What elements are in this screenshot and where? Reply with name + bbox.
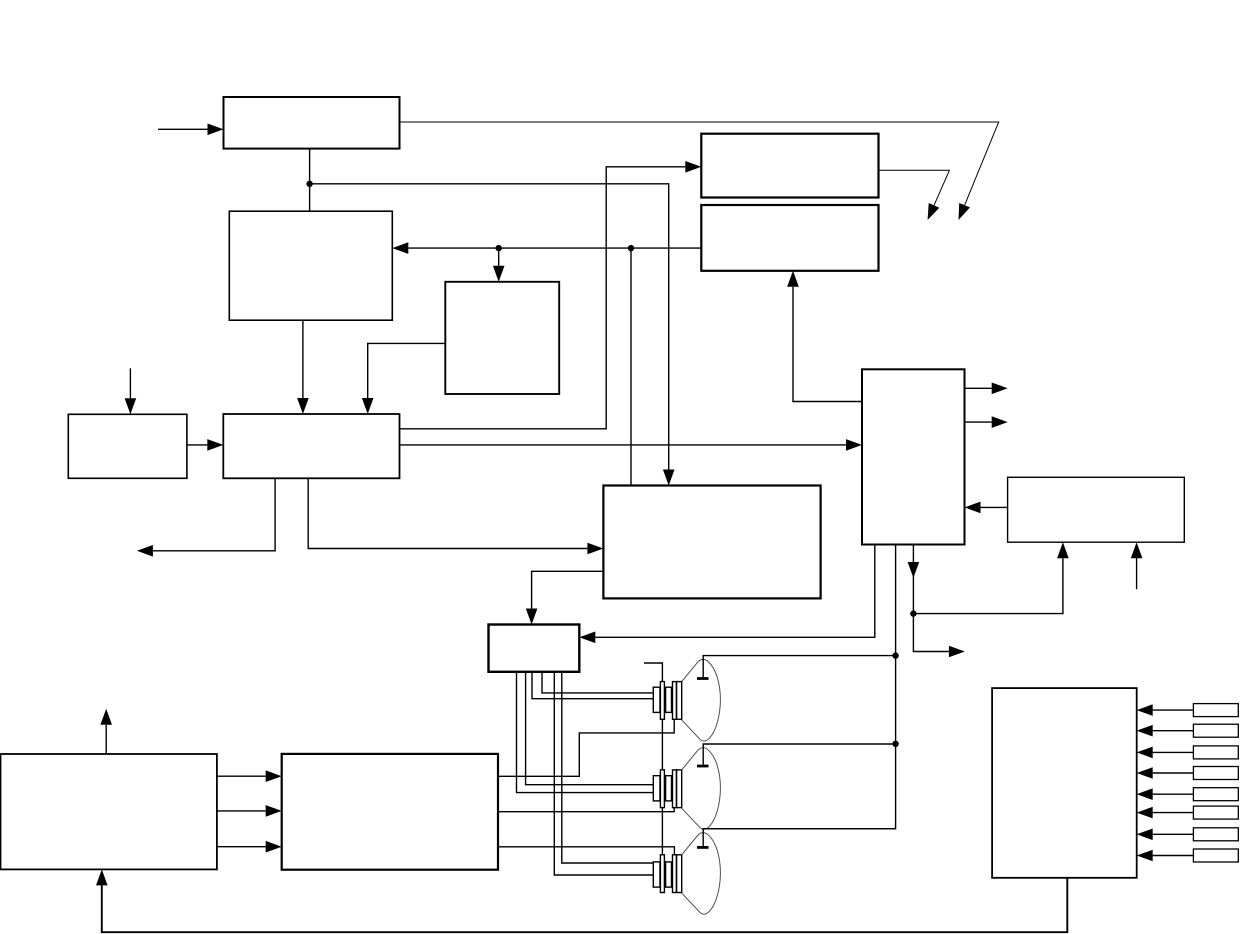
- block K (control unit): [992, 688, 1137, 878]
- CRT tube 3: funnel/bulb outline: [682, 833, 721, 915]
- wire: junction down into block C: [493, 248, 505, 282]
- wire: block G bottom output with mid arrow: [913, 545, 965, 658]
- block C (sync separator): [445, 282, 559, 394]
- wire: block M output 1 to CRT1 cathode: [498, 719, 674, 776]
- small input box S1: [1193, 704, 1238, 717]
- wire: external input into block A: [158, 124, 224, 136]
- wire: input S4 into block K: [1137, 767, 1194, 779]
- CRT tube 1: anode cap bar: [697, 677, 709, 680]
- wire: junction up into block I bottom: [913, 542, 1068, 613]
- CRT tube 3: gun electrode stack: [653, 855, 681, 893]
- junction: G output tap to block I: [910, 610, 916, 616]
- small input box S5: [1193, 788, 1238, 801]
- CRT tube 2: anode cap bar: [697, 765, 709, 768]
- wire: input S8 into block K: [1137, 850, 1194, 862]
- CRT tube 3: anode lead wire: [703, 829, 895, 846]
- block J (focus pack): [489, 625, 580, 672]
- CRT tube 1: anode lead wire: [703, 656, 895, 678]
- CRT tube 2: gun electrode stack: [653, 770, 681, 808]
- junction: HV line to CRT1 anode: [892, 652, 898, 658]
- junction: HV line to CRT2 anode: [892, 741, 898, 747]
- small input box S8: [1193, 849, 1238, 862]
- wire: input S1 into block K: [1137, 704, 1194, 716]
- wire: J output to CRT2 grid lower: [517, 672, 654, 793]
- wire: block G anode HV line to CRT anodes: [703, 545, 895, 829]
- small input box S3: [1193, 746, 1238, 759]
- wire: block M output 3 to CRT3 cathode: [498, 847, 674, 855]
- wire: external input into block D top: [125, 368, 137, 414]
- wire: input S7 into block K: [1137, 829, 1194, 841]
- small input box S6: [1193, 806, 1238, 819]
- arrowhead: mid-line down arrow on G output: [908, 562, 920, 578]
- wire: block M output 2 to CRT2 cathode: [498, 808, 674, 812]
- wire: block C left into block E top: [362, 343, 445, 414]
- wire: J output to CRT3 grid upper: [562, 672, 654, 863]
- CRT tube 2: funnel/bulb outline: [682, 748, 721, 830]
- junction: feedback line tap to DEF: [628, 245, 634, 251]
- small input box S7: [1193, 828, 1238, 841]
- wire: junction down to deflection-output top: [630, 248, 632, 485]
- wire: block L output 1 to block M: [217, 770, 282, 782]
- CRT tube 3: anode cap bar: [697, 846, 709, 849]
- CRT tube 1: gun electrode stack: [653, 682, 681, 720]
- wire: block A output to top-right diagonal arrow: [400, 122, 999, 205]
- wire: common grid line through CRT necks: [644, 663, 662, 884]
- block E (deflection processor): [223, 414, 399, 478]
- block G (high voltage unit): [862, 369, 965, 544]
- wire: block L top output arrow: [100, 709, 112, 754]
- wire: block A bottom to block B top: [309, 149, 311, 212]
- block D (oscillator): [68, 414, 187, 478]
- arrowhead: diagonal arrow 1 (to CRT anode, right): [959, 203, 971, 220]
- block B (video processor): [229, 211, 392, 320]
- junction: A-B vertical tap: [306, 181, 312, 187]
- block A (signal input): [224, 97, 400, 149]
- wire: block B bottom into block E top: [297, 320, 309, 414]
- wire: J output to CRT3 grid lower: [554, 672, 653, 875]
- wire: input S3 into block K: [1137, 747, 1194, 759]
- wire: deflection-output left to focus pack J top: [526, 571, 604, 624]
- wire: block L output 3 to block M: [217, 841, 282, 853]
- block DEF (deflection output): [603, 486, 820, 599]
- wire: junction to deflection-output top (down arrow): [310, 184, 675, 486]
- wire: block G left output up into F2 bottom: [787, 271, 862, 402]
- CRT tube 1: funnel/bulb outline: [682, 659, 721, 741]
- wire: block G right output arrow 2: [965, 416, 1008, 428]
- wire: block E bottom-left output arrow: [137, 478, 275, 556]
- wire: block E right output to block G left: [400, 439, 863, 451]
- wire: J output to CRT1 grid upper: [542, 672, 653, 693]
- wire: block I output into block G right: [965, 502, 1008, 514]
- wire: block D to block E: [187, 439, 223, 451]
- block L (power supply): [1, 754, 217, 869]
- wire: block L output 2 to block M: [217, 805, 282, 817]
- wire: block G right output arrow 1: [965, 383, 1008, 395]
- wire: J output to CRT2 grid upper: [526, 672, 654, 785]
- small input box S4: [1193, 767, 1238, 780]
- wire: block K bottom feedback bus to block L: [96, 869, 1067, 932]
- wire: block E right output up to F1 input: [400, 161, 702, 429]
- wire: external input up into block I bottom: [1131, 542, 1143, 589]
- wire: block E bottom output to deflection-output left: [308, 478, 603, 554]
- wire: input S2 into block K: [1137, 725, 1194, 737]
- wire: F1 right output to diagonal arrow 2: [879, 170, 950, 205]
- block F1 (output stage 1): [701, 134, 878, 198]
- arrowhead: diagonal arrow 2 (to CRT anode, left): [928, 203, 940, 220]
- CRT tube 2: anode lead wire: [703, 744, 895, 765]
- wire: F2 left to block B right (feedback): [392, 242, 701, 254]
- wire: block G bottom output to focus pack J: [579, 545, 875, 644]
- junction: feedback line tap to block C: [496, 245, 502, 251]
- block I (power regulator): [1008, 477, 1185, 542]
- block F2 (output stage 2): [701, 205, 878, 271]
- block M (regulator bank): [282, 754, 498, 870]
- wire: input S5 into block K: [1137, 788, 1194, 800]
- wire: J output to CRT1 grid lower: [532, 672, 653, 699]
- wire: input S6 into block K: [1137, 807, 1194, 819]
- small input box S2: [1193, 724, 1238, 737]
